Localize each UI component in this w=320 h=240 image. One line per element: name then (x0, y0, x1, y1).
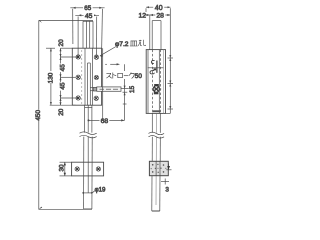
guide screw left (75, 167, 79, 171)
dim 3 (161, 164, 172, 185)
label phi7.2 sara-ana (115, 40, 146, 49)
left chain dim line 20/45/45/20 (50, 48, 78, 105)
case above plate (83, 21, 93, 48)
side guide block (149, 161, 168, 175)
dim 450 text (35, 110, 42, 121)
dim 450 vertical line (38, 21, 40, 210)
dim 45 top line (75, 14, 99, 57)
dim phi19 (82, 191, 94, 194)
chain text 45 upper (59, 64, 67, 73)
dim 68 (88, 119, 125, 121)
svg-text:130: 130 (48, 72, 55, 83)
dim 12 / 28 (145, 14, 171, 50)
leader phi7.2 (100, 47, 116, 58)
side handle shaft upper position (148, 60, 164, 73)
screw F4 (mid-right) (94, 75, 98, 79)
dim 130 text (47, 71, 54, 83)
face plate (72, 48, 101, 105)
svg-text:φ19: φ19 (95, 186, 106, 193)
dim 40 text (153, 4, 164, 12)
svg-text:20: 20 (58, 108, 65, 116)
svg-text:45: 45 (59, 64, 66, 72)
right reference line (166, 8, 174, 113)
chain text 20 top (58, 39, 65, 47)
label stroke 50 (106, 71, 144, 80)
handle bar (90, 87, 121, 91)
side rod break waves (149, 132, 165, 138)
svg-text:φ7.2: φ7.2 (115, 41, 129, 48)
stroke reference line (102, 48, 104, 120)
dim 45 top text (84, 12, 94, 20)
case bottom line behind rod (85, 107, 92, 109)
svg-text:40: 40 (155, 5, 163, 12)
dim 40 (146, 6, 171, 12)
screw F6 (bot-right) (94, 96, 98, 100)
side rod below case (152, 113, 161, 211)
dim 28 text (155, 12, 165, 20)
svg-text:68: 68 (101, 118, 109, 125)
front rod break waves (80, 132, 97, 138)
svg-text:15: 15 (129, 85, 136, 93)
plate channel lines (82, 48, 93, 105)
svg-text:12: 12 (139, 13, 147, 20)
screw F1 (top-left) (76, 55, 80, 59)
svg-text:28: 28 (156, 13, 164, 20)
dim 15 (121, 86, 129, 96)
svg-text:45: 45 (85, 13, 93, 20)
screw F5 (bot-left) (76, 96, 80, 100)
dim 450 reference top line (39, 20, 93, 23)
screw F2 (top-right) (94, 55, 98, 59)
side case (146, 50, 165, 114)
svg-text:3: 3 (165, 186, 169, 193)
svg-text:65: 65 (84, 5, 91, 12)
front rod (84, 105, 93, 209)
side rod top (152, 21, 161, 50)
chain text 45 lower (59, 82, 67, 91)
guide screw right (96, 167, 100, 171)
screw F3 (mid-left) (76, 75, 80, 79)
svg-text:450: 450 (35, 110, 42, 121)
svg-text:45: 45 (59, 82, 66, 90)
svg-text:30: 30 (59, 164, 66, 172)
handle slot (88, 63, 91, 105)
svg-text:50: 50 (135, 73, 143, 80)
dim 130 line (46, 48, 55, 105)
side handle shaft lower position (152, 84, 161, 94)
svg-text:20: 20 (58, 39, 65, 47)
dim 450 bottom tick (39, 207, 93, 210)
dim 65 line (70, 7, 104, 49)
dim 30 (60, 162, 72, 176)
bottom guide plate front (72, 162, 104, 176)
stroke dashed arrow (105, 63, 126, 120)
dim 65 text (83, 4, 93, 12)
